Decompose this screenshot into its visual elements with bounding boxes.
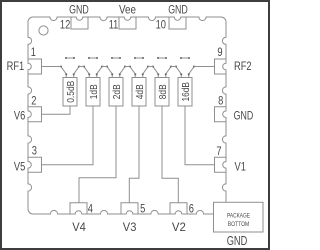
pad 5 (V3) (121, 203, 138, 214)
pad 7 (V1) (215, 157, 227, 172)
wire stage1 to stage2 (79, 66, 84, 68)
wire 16dB cell to pad 7 (V1) (185, 106, 215, 165)
pad 11 (Vee) (119, 17, 136, 29)
svg-text:10: 10 (156, 19, 166, 31)
wire RF1 pad to first switch (42, 66, 62, 68)
wire 0.5dB cell to pad 2 (V6) (42, 106, 71, 114)
svg-text:V1: V1 (235, 161, 246, 173)
pad 10 (GND) (169, 17, 186, 29)
attenuator cell ATT4 4dB (129, 57, 149, 106)
pin 1 indicator circle (39, 26, 48, 35)
wire last switch to RF2 pad (194, 66, 215, 68)
attenuator cell ATT1 0.5dB (60, 57, 80, 106)
svg-text:0.5dB: 0.5dB (65, 81, 77, 103)
wire 8dB cell to pad 6 (V2) (162, 106, 178, 203)
svg-text:5: 5 (140, 203, 145, 215)
wire stage3 to stage4 (125, 66, 130, 68)
svg-text:3: 3 (32, 146, 37, 158)
svg-text:V2: V2 (172, 222, 186, 234)
attenuator cell ATT2 1dB (83, 57, 103, 106)
pad 6 (V2) (170, 203, 187, 214)
svg-text:4: 4 (88, 203, 94, 215)
svg-text:12: 12 (60, 19, 70, 31)
svg-text:2: 2 (31, 95, 36, 107)
svg-text:8: 8 (218, 96, 223, 108)
attenuator cell ATT5 8dB (152, 57, 172, 106)
svg-text:1: 1 (31, 47, 36, 59)
wire 1dB cell to pad 3 (V5) (42, 106, 94, 165)
svg-text:GND: GND (234, 110, 254, 122)
pad 4 (V4) (70, 203, 87, 214)
svg-text:V3: V3 (123, 222, 137, 234)
svg-text:GND: GND (69, 4, 89, 16)
svg-text:6: 6 (189, 203, 194, 215)
attenuator cell ATT6 16dB (175, 57, 195, 106)
svg-text:Vee: Vee (119, 4, 136, 16)
svg-text:8dB: 8dB (157, 84, 169, 99)
pad 2 (V6) (28, 107, 42, 122)
svg-text:V5: V5 (14, 161, 25, 173)
pad 8 (GND) (215, 107, 227, 122)
svg-text:2dB: 2dB (111, 84, 123, 99)
svg-text:V6: V6 (14, 110, 25, 122)
PACKAGE BOTTOM box (214, 202, 264, 232)
pad 9 (RF2) (215, 59, 227, 74)
wire stage4 to stage5 (148, 66, 153, 68)
svg-text:RF1: RF1 (7, 61, 25, 73)
package outline (QFN body with edge castellations) (28, 17, 226, 214)
svg-text:GND: GND (227, 233, 248, 248)
svg-text:RF2: RF2 (234, 61, 252, 73)
wire stage5 to stage6 (171, 66, 176, 68)
svg-text:16dB: 16dB (180, 82, 192, 102)
pad 3 (V5) (28, 157, 42, 172)
pad 12 (GND) (71, 17, 88, 29)
svg-text:4dB: 4dB (134, 84, 146, 99)
svg-text:BOTTOM: BOTTOM (228, 221, 250, 228)
svg-text:V4: V4 (72, 222, 86, 234)
pad 1 (RF1) (28, 59, 42, 74)
svg-text:11: 11 (109, 19, 119, 31)
attenuator cell ATT3 2dB (106, 57, 126, 106)
wire 2dB cell to pad 4 (V4) (79, 106, 116, 203)
svg-text:1dB: 1dB (88, 84, 100, 99)
svg-text:7: 7 (216, 146, 221, 158)
wire stage2 to stage3 (102, 66, 107, 68)
svg-text:GND: GND (168, 4, 188, 16)
svg-text:PACKAGE: PACKAGE (227, 212, 250, 219)
svg-text:9: 9 (217, 47, 222, 59)
wire 4dB cell to pad 5 (V3) (129, 106, 139, 203)
